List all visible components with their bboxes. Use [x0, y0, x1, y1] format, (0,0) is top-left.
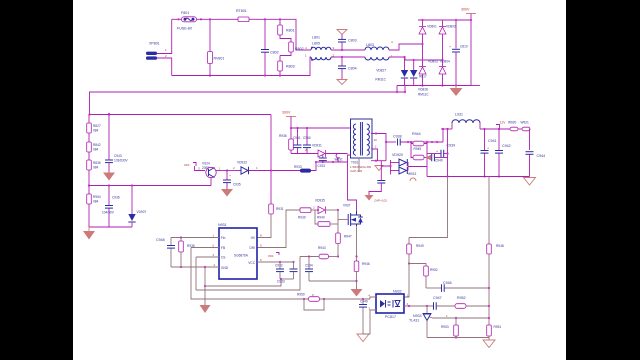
capacitor C934 — [305, 257, 313, 282]
wire VS24 emitter to mid rail — [210, 178, 212, 186]
net 12v flag — [496, 121, 505, 130]
diode VD827 — [375, 56, 408, 86]
ground R946 — [351, 289, 363, 297]
svg-text:R953: R953 — [441, 325, 449, 329]
wire choke to X-caps top — [331, 49, 365, 51]
wire DRI to gate network — [257, 210, 300, 248]
svg-text:TL431: TL431 — [409, 319, 419, 323]
svg-text:F801: F801 — [181, 11, 189, 15]
svg-text:C941: C941 — [488, 139, 497, 143]
svg-text:084: 084 — [93, 200, 99, 204]
wire L803 pin4 to bridge — [389, 44, 423, 50]
optocoupler N932 PC817 — [368, 290, 409, 320]
svg-text:C943: C943 — [114, 154, 122, 158]
wire gate — [338, 219, 348, 221]
svg-text:W913: W913 — [408, 172, 417, 176]
svg-text:SG6876A: SG6876A — [234, 254, 249, 258]
Y-capacitor near T931 — [369, 166, 385, 195]
svg-text:10: 10 — [374, 138, 378, 142]
primary ground arrow — [450, 86, 463, 97]
net 300V snubber — [282, 111, 296, 129]
svg-text:L801: L801 — [312, 36, 320, 40]
svg-text:R933: R933 — [294, 165, 302, 169]
svg-text:R952: R952 — [457, 296, 466, 300]
capacitor C949 — [359, 298, 368, 334]
resistor R944 — [411, 132, 427, 151]
wire fuse to RT801 — [197, 18, 239, 20]
wire opto pin2 — [404, 305, 433, 307]
resistor R936 — [279, 128, 293, 154]
svg-text:C936: C936 — [112, 196, 120, 200]
wire FB net long — [191, 248, 370, 300]
capacitor C936 — [102, 184, 120, 227]
wire T931 shield stub — [358, 158, 360, 172]
svg-text:R943: R943 — [318, 246, 326, 250]
svg-text:R944: R944 — [412, 132, 421, 136]
svg-text:R842: R842 — [93, 143, 101, 147]
dual diode VD920 — [389, 153, 427, 181]
diode VD802 — [439, 20, 456, 66]
svg-text:R950: R950 — [297, 293, 305, 297]
svg-text:C931: C931 — [318, 164, 326, 168]
svg-text:T931: T931 — [351, 161, 358, 165]
ground below C843 — [103, 173, 115, 181]
svg-text:W921: W921 — [521, 121, 530, 125]
ground above C803 — [337, 30, 347, 35]
jumper W920 — [508, 121, 518, 131]
svg-text:Fin: Fin — [221, 236, 226, 240]
svg-text:VD933: VD933 — [237, 161, 247, 165]
svg-text:C949: C949 — [360, 300, 368, 304]
common-mode choke L801/L805 — [305, 36, 335, 61]
wire HV drop x271 — [270, 115, 272, 205]
resistor R949 — [407, 238, 424, 265]
left letterbox bar — [0, 0, 73, 360]
svg-text:R939: R939 — [298, 216, 306, 220]
svg-text:R945: R945 — [414, 147, 422, 151]
resistor R946 — [354, 257, 370, 290]
resistor R947 — [336, 233, 352, 258]
capacitor C947 — [433, 296, 455, 310]
svg-text:R948: R948 — [496, 244, 504, 248]
svg-text:VCC: VCC — [248, 261, 255, 265]
svg-text:FUSE-8X: FUSE-8X — [177, 27, 193, 31]
wire stub rail to bridge bottom — [396, 86, 398, 93]
svg-text:VD804: VD804 — [440, 60, 450, 64]
resistor R842 — [87, 133, 101, 152]
svg-text:084: 084 — [93, 166, 99, 170]
svg-text:VD802: VD802 — [446, 25, 456, 29]
wire pin2 FB — [191, 247, 219, 249]
resistor R952 — [455, 296, 490, 308]
svg-text:W920: W920 — [508, 121, 517, 125]
ground sec rail — [524, 178, 536, 186]
svg-text:103/630V: 103/630V — [114, 159, 129, 163]
resistor R954 — [87, 186, 101, 228]
capacitor C932 — [275, 261, 284, 279]
diode VD828 — [410, 59, 429, 97]
svg-text:VS24: VS24 — [202, 162, 210, 166]
capacitor C931 — [318, 154, 327, 169]
ground below C935 — [221, 189, 233, 197]
ground near mosfet — [365, 195, 374, 201]
svg-text:300V: 300V — [461, 8, 470, 12]
resistor R951 — [487, 325, 502, 336]
svg-text:300V: 300V — [282, 111, 291, 115]
svg-text:GND: GND — [221, 266, 229, 270]
svg-text:FB: FB — [221, 246, 225, 250]
IC N931 SG6876A — [212, 223, 262, 279]
svg-text:C932: C932 — [275, 264, 283, 268]
wire bottom AC rail — [172, 57, 311, 76]
svg-text:R802: R802 — [295, 47, 304, 51]
svg-text:VD803: VD803 — [428, 60, 438, 64]
svg-text:R931: R931 — [276, 207, 284, 211]
svg-text:N933: N933 — [413, 314, 422, 318]
svg-text:L803: L803 — [366, 43, 374, 47]
transistor VS24 2055 — [198, 162, 221, 178]
wire sense drop x447 low — [409, 177, 448, 238]
svg-text:+: + — [487, 147, 489, 151]
svg-text:XP801: XP801 — [149, 42, 160, 46]
svg-text:104/50V: 104/50V — [102, 211, 115, 215]
diode VD935 — [313, 199, 339, 214]
svg-text:R949: R949 — [416, 244, 424, 248]
wire 12V rail — [441, 128, 452, 130]
wire T931 sec tap — [371, 149, 378, 161]
wire pin1 Fin — [171, 237, 219, 239]
svg-text:R947: R947 — [344, 235, 352, 239]
jumper W921 — [518, 121, 530, 151]
resistor R801 — [278, 18, 295, 42]
diode VD931 — [305, 144, 326, 158]
resistor R803 — [278, 56, 295, 77]
svg-text:084: 084 — [93, 129, 99, 133]
capacitor C802 — [261, 18, 279, 76]
svg-text:C810: C810 — [460, 45, 468, 49]
choke L803 — [365, 40, 393, 60]
svg-text:C935: C935 — [233, 183, 241, 187]
wire XP801 pin2 to bottom rail — [157, 58, 172, 76]
wire gnd wrap to vcc caps — [205, 279, 281, 286]
wire GND drop x205 — [204, 267, 206, 306]
svg-text:+: + — [229, 174, 231, 178]
mosfet V931 — [343, 204, 363, 227]
resistor R943 — [300, 246, 338, 259]
svg-text:R817: R817 — [419, 75, 427, 79]
resistor R939 — [298, 208, 318, 220]
capacitor C946 — [426, 281, 490, 292]
net vcc flag chip — [268, 253, 279, 259]
wire sec to C938 — [386, 141, 396, 143]
svg-text:CAP+102: CAP+102 — [374, 199, 387, 203]
svg-text:vcc: vcc — [268, 254, 274, 258]
ground divider — [83, 227, 95, 240]
ground feedback — [483, 338, 495, 348]
resistor R940 — [315, 210, 338, 226]
svg-text:N931: N931 — [218, 223, 227, 227]
resistor R802 — [280, 42, 304, 56]
wire VD935 node down — [337, 210, 339, 233]
svg-text:VD828: VD828 — [418, 88, 428, 92]
svg-text:VD931: VD931 — [312, 144, 322, 148]
wire feedback bottom rail — [427, 337, 489, 339]
wire left drop to divider — [89, 92, 91, 115]
capacitor C940 — [426, 154, 448, 163]
shunt regulator N933 TL431 — [409, 306, 448, 338]
capacitor C939 — [427, 144, 455, 158]
svg-text:C942: C942 — [502, 144, 511, 148]
svg-text:RM11C: RM11C — [418, 93, 429, 97]
zener VD907 — [128, 184, 146, 227]
svg-text:C948: C948 — [156, 238, 165, 242]
wire source sense rail — [308, 255, 310, 257]
resistor R962 — [409, 264, 438, 289]
bridge top rail — [418, 19, 471, 21]
svg-text:R803: R803 — [286, 65, 295, 69]
wire L803 pin1 to bridge — [389, 57, 443, 60]
wire 12v sense drop x489 — [488, 177, 490, 245]
wire CS net — [196, 257, 300, 291]
capacitor C951 — [293, 127, 302, 154]
svg-text:C951: C951 — [293, 136, 301, 140]
resistor R950 — [297, 293, 325, 311]
svg-text:L931: L931 — [455, 113, 463, 117]
svg-text:PC817: PC817 — [385, 315, 396, 319]
svg-text:RM11C: RM11C — [375, 78, 386, 82]
inductor L931 — [452, 113, 480, 130]
capacitor C938 — [393, 135, 443, 146]
ground small near T931 — [375, 166, 383, 171]
wire VD931 return top — [326, 153, 348, 155]
svg-text:R951: R951 — [494, 325, 502, 329]
varistor RV801 — [208, 18, 225, 76]
svg-text:RV801: RV801 — [214, 57, 225, 61]
wire primary DC- rail y92 — [89, 91, 405, 93]
right letterbox bar — [566, 0, 640, 360]
capacitor C941 — [481, 129, 497, 178]
svg-text:R827: R827 — [93, 124, 101, 128]
wire rectifier bus x427 — [426, 142, 428, 177]
ground below C804 — [337, 80, 347, 85]
svg-text:VD920: VD920 — [392, 153, 403, 157]
capacitor C944 — [526, 152, 546, 177]
wire opto pin1 drop — [404, 264, 409, 298]
svg-text:CAP-102: CAP-102 — [350, 169, 363, 173]
wire T931 primary bottom to drain — [348, 155, 357, 211]
svg-text:DRI: DRI — [250, 246, 256, 250]
resistor R948 — [487, 244, 504, 338]
wire divider bottom — [89, 226, 132, 228]
resistor R827 — [87, 114, 101, 133]
resistor R935 — [179, 236, 195, 268]
wire snubber bottom — [291, 153, 318, 155]
resistor R931 — [269, 204, 284, 214]
svg-text:+: + — [436, 150, 438, 154]
diode VD801 — [419, 19, 437, 66]
wire pin4 GND — [171, 266, 219, 268]
svg-text:C938: C938 — [393, 135, 402, 139]
capacitor C843 — [105, 113, 129, 173]
wire C934 ground link — [309, 280, 357, 282]
svg-text:R935: R935 — [187, 244, 195, 248]
svg-text:W931: W931 — [335, 158, 344, 162]
wire opto pin3 — [363, 310, 376, 334]
svg-text:R952: R952 — [430, 268, 438, 272]
resistor R836 — [87, 152, 101, 186]
wire HV feed rail y114 — [90, 114, 272, 116]
svg-text:C802: C802 — [270, 51, 279, 55]
svg-text:R836: R836 — [93, 161, 101, 165]
svg-text:084: 084 — [93, 148, 99, 152]
capacitor C935 — [223, 169, 241, 189]
wire pin3 CS — [196, 256, 219, 258]
wire R931 to HV pin — [257, 214, 271, 238]
svg-text:C944: C944 — [537, 154, 546, 158]
svg-text:R940: R940 — [317, 216, 325, 220]
fuse F801 — [177, 11, 202, 31]
svg-text:vcc: vcc — [184, 163, 190, 167]
svg-text:L805: L805 — [312, 42, 320, 46]
capacitor C933 — [277, 261, 298, 284]
svg-text:C947: C947 — [433, 296, 442, 300]
svg-text:CS: CS — [221, 256, 225, 260]
svg-text:C933: C933 — [277, 280, 285, 284]
wire stub VD827 bottom — [404, 86, 406, 93]
svg-text:VD935: VD935 — [315, 199, 325, 203]
wire secondary ground rail — [427, 176, 530, 178]
svg-text:C940: C940 — [435, 159, 443, 163]
wire ref divider — [437, 317, 489, 319]
connector XP801 — [146, 42, 167, 60]
svg-text:R946: R946 — [362, 262, 370, 266]
svg-text:R936: R936 — [279, 134, 287, 138]
ground C949 — [357, 334, 369, 342]
resistor R945 — [411, 144, 427, 160]
wire top AC rail — [172, 18, 181, 20]
capacitor C803 — [338, 35, 357, 52]
net 300V — [461, 8, 480, 86]
wire T931 sec pin10 — [371, 134, 386, 161]
wire sec to VD920 — [381, 161, 390, 166]
capacitor C950 — [303, 127, 311, 154]
transformer T931 — [350, 119, 377, 173]
wire mid rail y185 — [89, 185, 211, 187]
wire RT801 to choke corner — [249, 19, 311, 50]
svg-text:C803: C803 — [348, 39, 357, 43]
wire opto pin4 — [370, 297, 376, 299]
wire rail link x443 — [442, 129, 444, 142]
svg-text:V937: V937 — [343, 204, 351, 208]
wire CS pin drop — [195, 257, 197, 290]
wire sec mid drop x447 — [447, 129, 449, 177]
svg-text:R954: R954 — [93, 195, 101, 199]
ground chip — [200, 305, 211, 313]
bridge bottom rail — [397, 85, 471, 87]
wire VCC pin — [257, 261, 294, 263]
svg-text:C804: C804 — [348, 67, 357, 71]
wire VS24 to C935 node — [216, 170, 228, 172]
svg-text:12v: 12v — [500, 121, 506, 125]
wire aux y162 — [315, 161, 348, 163]
svg-text:N932: N932 — [393, 290, 402, 294]
resistor R953 — [441, 318, 458, 339]
capacitor C810 — [449, 19, 468, 87]
wire snubber top rail — [291, 127, 351, 129]
svg-text:VD801: VD801 — [427, 25, 437, 29]
diode VD804 — [439, 60, 450, 87]
wire XP801 pin1 to fuse — [157, 19, 172, 53]
jumper W931 — [335, 154, 344, 162]
svg-text:VD827: VD827 — [376, 69, 386, 73]
svg-text:RT801: RT801 — [236, 9, 247, 13]
svg-text:+: + — [449, 45, 451, 49]
svg-text:R801: R801 — [286, 29, 295, 33]
wire source down — [356, 226, 358, 257]
wire T931 sec pin1 — [371, 160, 386, 162]
capacitor C804 — [338, 56, 357, 80]
svg-text:VD907: VD907 — [137, 210, 147, 214]
net vcc flag — [184, 163, 205, 171]
capacitor C942 — [495, 129, 511, 178]
diode VD933 — [227, 161, 300, 175]
wire choke to X-caps bottom — [331, 56, 365, 58]
capacitor C948 — [156, 238, 175, 268]
ferrite bead R933 — [294, 162, 316, 173]
thermistor RT801 — [236, 9, 249, 22]
diode VD803 — [419, 60, 438, 87]
